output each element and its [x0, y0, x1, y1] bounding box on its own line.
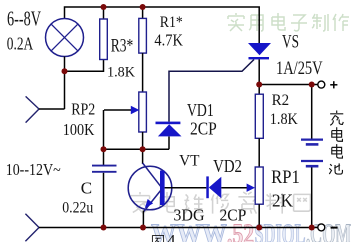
- svg-text:2CP: 2CP: [220, 206, 247, 225]
- wire cathode rail to + terminal: [259, 84, 317, 86]
- svg-text:R2: R2: [272, 92, 290, 109]
- wire R1 to RP2: [142, 53, 144, 92]
- wire VD1 cathode up and right to SCR gate: [169, 60, 254, 122]
- watermark: gray "jiadian weixiu ziliao wang" lower middle: [130, 192, 310, 214]
- capacitor C: [92, 165, 117, 167]
- svg-text:4.7K: 4.7K: [154, 31, 183, 50]
- input terminal lower: [25, 214, 39, 242]
- svg-text:1A/25V: 1A/25V: [276, 58, 323, 79]
- wire VD2 to RP1 wiper: [221, 187, 247, 189]
- terminal + circle: [318, 81, 325, 88]
- svg-text:.COM: .COM: [306, 220, 351, 242]
- potentiometer RP2: [139, 92, 147, 132]
- terminal - circle: [318, 224, 325, 231]
- wire lamp bottom to node: [64, 57, 66, 110]
- resistor R2: [258, 85, 260, 95]
- svg-text:C: C: [81, 178, 92, 197]
- VT base bar: [160, 171, 165, 206]
- VT base lead to VD2: [165, 187, 207, 189]
- diode VD1: [156, 122, 181, 125]
- watermark: green "shiyong dianzi zhizuo" top right: [228, 13, 349, 31]
- transistor VT: [128, 166, 172, 210]
- svg-text:3DG: 3DG: [173, 206, 204, 225]
- wire upper terminal: [39, 108, 65, 110]
- watermark: bottom web address: [151, 220, 351, 242]
- wire cap bottom: [103, 173, 105, 228]
- resistor R1: [142, 7, 144, 18]
- svg-text:VT: VT: [179, 152, 200, 169]
- wire wiper down to cap node: [103, 110, 105, 165]
- svg-text:VD2: VD2: [213, 156, 242, 176]
- thyristor VS: [248, 43, 271, 55]
- svg-text:VS: VS: [282, 32, 299, 53]
- wire node to R3 bottom: [65, 60, 104, 72]
- svg-text:0.22u: 0.22u: [62, 200, 93, 217]
- svg-text:1.8K: 1.8K: [270, 111, 298, 128]
- label battery chongdian dianchi (vertical): [329, 111, 343, 175]
- svg-text:10--12V~: 10--12V~: [6, 160, 61, 179]
- VT emitter with arrow: [144, 191, 161, 212]
- svg-text:RP1: RP1: [271, 167, 300, 188]
- svg-text:SDIOL: SDIOL: [255, 220, 306, 242]
- junction node dots: [62, 4, 315, 231]
- lamp HL: [46, 19, 84, 57]
- diode VD2: [206, 176, 209, 198]
- svg-text:1.8K: 1.8K: [107, 65, 135, 81]
- svg-text:4: 4: [167, 231, 176, 242]
- wire top rail: [65, 7, 260, 44]
- resistor R3: [103, 7, 105, 19]
- svg-text:2K: 2K: [272, 191, 293, 211]
- minus sign: [331, 227, 338, 229]
- wire VD1 anode down to node row: [168, 137, 170, 150]
- svg-text:R1*: R1*: [160, 14, 183, 31]
- svg-text:2CP: 2CP: [190, 119, 217, 139]
- caption tu 4 (clipped at bottom): [152, 235, 163, 242]
- wire R2 to RP1: [258, 138, 260, 167]
- battery: [311, 85, 313, 139]
- VT collector wire from node: [142, 149, 144, 164]
- input terminal upper: [26, 96, 39, 122]
- RP2 wiper arrow: [104, 109, 132, 111]
- svg-text:VD1: VD1: [187, 100, 214, 120]
- svg-text:R3*: R3*: [111, 36, 134, 57]
- wire bottom rail: [39, 227, 318, 229]
- svg-text:0.2A: 0.2A: [7, 33, 33, 53]
- svg-text:RP2: RP2: [71, 100, 95, 119]
- node wire row y=149: [104, 148, 170, 150]
- potentiometer RP1: [255, 167, 263, 204]
- svg-text:6--8V: 6--8V: [7, 7, 41, 31]
- plus sign: [330, 84, 337, 86]
- svg-text:100K: 100K: [63, 120, 95, 139]
- RP1 wiper arrow: [247, 184, 255, 192]
